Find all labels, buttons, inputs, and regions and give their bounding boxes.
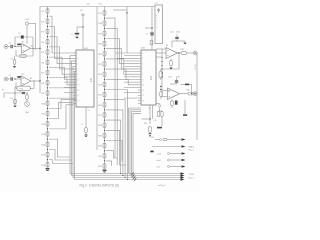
svg-text:7: 7 bbox=[78, 69, 79, 71]
svg-text:13: 13 bbox=[78, 85, 80, 87]
svg-text:X1: X1 bbox=[149, 108, 151, 110]
svg-text:test: test bbox=[157, 165, 161, 168]
svg-text:+15V: +15V bbox=[24, 19, 30, 21]
svg-text:A2: A2 bbox=[30, 77, 32, 80]
svg-text:11: 11 bbox=[78, 79, 80, 81]
svg-text:7: 7 bbox=[142, 69, 143, 71]
svg-text:A1: A1 bbox=[31, 45, 33, 48]
svg-text:R33: R33 bbox=[181, 49, 184, 51]
svg-text:5: 5 bbox=[78, 63, 79, 65]
svg-text:9: 9 bbox=[142, 74, 143, 76]
svg-text:1: 1 bbox=[78, 53, 79, 55]
svg-text:19: 19 bbox=[78, 101, 80, 103]
svg-text:reset: reset bbox=[157, 152, 162, 155]
svg-text:3: 3 bbox=[142, 58, 143, 60]
svg-text:MAIN: MAIN bbox=[189, 146, 195, 149]
svg-text:C3: C3 bbox=[9, 43, 11, 45]
svg-text:C11: C11 bbox=[154, 120, 157, 122]
svg-text:9: 9 bbox=[78, 74, 79, 76]
svg-text:to Fig.3: to Fig.3 bbox=[158, 184, 166, 187]
svg-text:A4: A4 bbox=[168, 90, 170, 93]
svg-text:A3: A3 bbox=[166, 44, 168, 47]
svg-text:R36: R36 bbox=[176, 77, 179, 79]
svg-text:C1: C1 bbox=[71, 34, 73, 36]
svg-text:100n: 100n bbox=[176, 32, 180, 34]
svg-text:R7: R7 bbox=[11, 59, 13, 61]
svg-text:R5: R5 bbox=[22, 42, 24, 44]
svg-text:10k: 10k bbox=[19, 91, 22, 93]
svg-text:R6: R6 bbox=[22, 74, 24, 76]
svg-text:C7: C7 bbox=[81, 124, 83, 126]
svg-text:15: 15 bbox=[142, 90, 144, 92]
svg-text:C9: C9 bbox=[146, 34, 148, 36]
svg-text:C16: C16 bbox=[170, 32, 173, 34]
svg-text:1: 1 bbox=[142, 53, 143, 55]
svg-text:11: 11 bbox=[142, 79, 144, 81]
svg-text:3: 3 bbox=[78, 58, 79, 60]
svg-text:C2: C2 bbox=[18, 33, 20, 35]
svg-text:C18: C18 bbox=[168, 77, 171, 79]
svg-text:17: 17 bbox=[78, 95, 80, 97]
svg-text:Fig. 1: Fig. 1 bbox=[189, 150, 195, 152]
svg-text:+5V: +5V bbox=[86, 4, 90, 6]
svg-text:C4: C4 bbox=[9, 75, 11, 77]
svg-text:19: 19 bbox=[142, 101, 144, 103]
svg-text:R40: R40 bbox=[187, 90, 190, 92]
svg-text:IC2: IC2 bbox=[149, 76, 153, 81]
svg-text:Fig.2 - DIGITAL INPUTS (II): Fig.2 - DIGITAL INPUTS (II) bbox=[80, 184, 119, 188]
svg-text:OUT A: OUT A bbox=[194, 64, 197, 70]
svg-text:K1: K1 bbox=[156, 3, 158, 5]
svg-text:TO/Fr: TO/Fr bbox=[189, 173, 195, 176]
svg-text:17: 17 bbox=[142, 95, 144, 97]
svg-text:R8: R8 bbox=[11, 98, 13, 100]
svg-text:R34: R34 bbox=[144, 123, 147, 125]
svg-text:Fig. 3: Fig. 3 bbox=[189, 177, 195, 179]
svg-text:15: 15 bbox=[78, 90, 80, 92]
svg-text:13: 13 bbox=[142, 85, 144, 87]
svg-text:5: 5 bbox=[142, 63, 143, 65]
svg-text:X1: X1 bbox=[88, 110, 90, 112]
svg-text:P1: P1 bbox=[2, 90, 4, 92]
svg-text:IC1: IC1 bbox=[89, 78, 93, 83]
